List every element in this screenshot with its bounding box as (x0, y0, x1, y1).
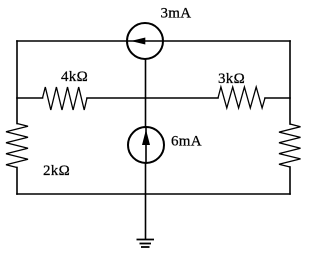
wire right upper (289, 41, 291, 124)
wire left upper (16, 41, 18, 124)
svg-text:2kΩ: 2kΩ (43, 163, 70, 179)
wire center vertical lower (6mA source through bottom wire to ground) (145, 163, 147, 239)
wire bottom (17, 193, 290, 195)
wire center vertical upper (3mA source to 6mA source) (145, 60, 147, 128)
resistor 2kOhm (left branch) (6, 124, 28, 168)
wire left lower (16, 168, 18, 195)
svg-text:3kΩ: 3kΩ (218, 71, 245, 87)
wire top-right segment (163, 40, 290, 42)
wire right lower (289, 167, 291, 194)
current source I2 6mA (arrow pointing up) (128, 127, 164, 163)
wire middle-left (left node to 4k resistor) (17, 97, 43, 99)
svg-text:4kΩ: 4kΩ (61, 69, 88, 85)
current source I1 3mA (arrow pointing left) (127, 23, 163, 59)
svg-text:3mA: 3mA (161, 6, 192, 22)
wire top-left segment (17, 40, 127, 42)
resistor 4kOhm (top left branch) (43, 87, 88, 110)
wire middle-right (3k to right node) (265, 97, 290, 99)
ground (137, 240, 155, 248)
wire middle-center (4k to 3k across center node) (87, 97, 218, 99)
resistor 3kOhm (top right branch) (218, 87, 265, 108)
resistor right branch (unlabeled) (279, 124, 301, 167)
svg-text:6mA: 6mA (171, 134, 202, 150)
